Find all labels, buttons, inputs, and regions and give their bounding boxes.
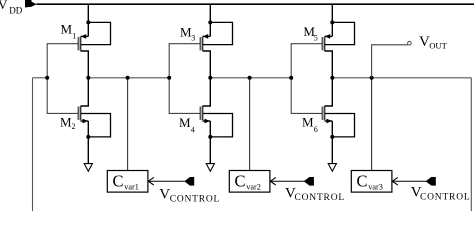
svg-text:var1: var1	[124, 182, 139, 191]
svg-text:M: M	[180, 24, 192, 39]
svg-text:OUT: OUT	[429, 41, 447, 51]
svg-text:DD: DD	[9, 6, 22, 16]
svg-text:var2: var2	[246, 182, 261, 191]
svg-text:3: 3	[191, 34, 195, 43]
svg-text:V: V	[159, 186, 170, 202]
svg-text:CONTROL: CONTROL	[295, 193, 345, 203]
svg-text:M: M	[302, 115, 314, 130]
svg-text:C: C	[235, 172, 246, 191]
svg-text:CONTROL: CONTROL	[420, 193, 470, 203]
svg-text:V: V	[0, 0, 8, 12]
svg-text:C: C	[357, 172, 368, 191]
svg-text:C: C	[113, 172, 124, 191]
svg-text:5: 5	[314, 34, 318, 43]
svg-text:2: 2	[72, 122, 76, 131]
svg-text:6: 6	[314, 125, 318, 134]
svg-text:4: 4	[191, 125, 195, 134]
svg-text:var3: var3	[368, 182, 383, 191]
svg-text:1: 1	[72, 32, 76, 41]
svg-text:M: M	[60, 114, 72, 129]
svg-text:M: M	[179, 115, 191, 130]
svg-text:M: M	[61, 22, 73, 37]
svg-text:CONTROL: CONTROL	[170, 195, 220, 205]
